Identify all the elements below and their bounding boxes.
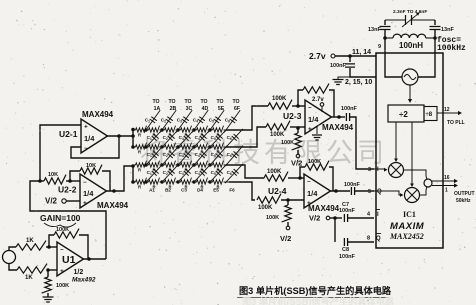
capacitor C8 100nF xyxy=(344,238,347,246)
svg-text:R: R xyxy=(138,184,141,189)
node U2-3 plus xyxy=(296,126,300,130)
op-amp U2-1 1/4 MAX494 xyxy=(81,119,108,153)
resistor R row2 col2 xyxy=(146,146,149,148)
svg-text:÷8: ÷8 xyxy=(426,112,433,118)
svg-text:+: + xyxy=(83,200,87,207)
resistor R row1 col5 xyxy=(194,129,197,131)
svg-text:MAX494: MAX494 xyxy=(97,201,129,210)
capacitor C3 band3 xyxy=(177,164,195,183)
node row4 col3 xyxy=(176,180,179,183)
node row1 col3 xyxy=(176,128,179,131)
resistor 10K feedback U2-2 xyxy=(70,171,80,181)
node U2-4 plus xyxy=(286,198,290,202)
svg-text:100K: 100K xyxy=(272,96,287,102)
resistor 100K row3 input xyxy=(264,172,288,182)
svg-text:TO: TO xyxy=(216,99,223,105)
svg-text:100nF: 100nF xyxy=(341,106,358,112)
resistor R row1 col4 xyxy=(178,129,181,131)
svg-text:B2: B2 xyxy=(165,188,171,193)
node U2-3 minus xyxy=(296,104,300,108)
svg-text:V/2: V/2 xyxy=(309,214,320,223)
svg-text:2.7v: 2.7v xyxy=(312,97,324,103)
node U1 plus xyxy=(46,268,50,272)
capacitor 13nF left xyxy=(384,20,386,25)
resistor 100K to ground xyxy=(47,270,49,277)
capacitor C6 band3 xyxy=(225,164,243,183)
svg-text:1K: 1K xyxy=(26,238,34,244)
divider /2 box xyxy=(388,105,424,122)
node U2-2 minus xyxy=(68,179,72,183)
wire mic top to R 1K xyxy=(9,247,16,251)
svg-text:GAIN=100: GAIN=100 xyxy=(40,213,81,223)
resistor R row4 col5 xyxy=(194,181,197,183)
node row2 col1 xyxy=(144,145,147,148)
wire row2 to U2-3 xyxy=(226,127,266,147)
svg-text:1K: 1K xyxy=(25,275,33,281)
svg-text:1/4: 1/4 xyxy=(83,189,94,198)
svg-text:U2-3: U2-3 xyxy=(283,111,302,121)
wire row4 right stub xyxy=(226,181,241,183)
svg-text:16: 16 xyxy=(444,175,450,181)
node row2 col2 xyxy=(160,145,163,148)
svg-text:100nF: 100nF xyxy=(339,208,356,214)
resistor R row1 col1 xyxy=(133,129,136,131)
wire to pin 3 I xyxy=(350,117,374,169)
node row4 col2 xyxy=(160,180,163,183)
node row1 col4 xyxy=(192,128,195,131)
capacitor C1 band1 xyxy=(145,129,163,148)
svg-text:−: − xyxy=(307,180,311,186)
svg-text:TO: TO xyxy=(200,99,207,105)
node row1 col2 xyxy=(160,128,163,131)
svg-text:U2-1: U2-1 xyxy=(59,129,78,139)
microphone MIC xyxy=(3,251,16,264)
capacitor C2 band1 xyxy=(161,129,179,148)
wire mic bottom to R 1K lower xyxy=(9,264,17,271)
node U1 minus xyxy=(47,245,51,249)
svg-text:1/4: 1/4 xyxy=(308,115,319,124)
capacitor 13nF right xyxy=(434,20,436,25)
op-amp U2-2 1/4 MAX494 xyxy=(80,174,107,208)
svg-text:A1: A1 xyxy=(149,188,155,193)
node row4 col1 xyxy=(144,180,147,183)
svg-text:R: R xyxy=(138,167,141,172)
svg-text:TO PLL: TO PLL xyxy=(447,120,465,126)
resistor R row3 col2 xyxy=(146,164,149,166)
svg-text:D4: D4 xyxy=(197,188,203,193)
svg-text:R: R xyxy=(138,132,141,137)
capacitor C3 to 3C xyxy=(176,110,192,132)
wire R1K to U1 inverting input xyxy=(46,246,57,248)
resistor 1K (lower mic) xyxy=(17,264,47,274)
svg-text:100nH: 100nH xyxy=(399,41,423,50)
svg-text:−: − xyxy=(84,146,88,152)
resistor R row1 col6 xyxy=(210,129,213,131)
caption underline xyxy=(237,297,389,299)
capacitor C3 band1 xyxy=(177,129,195,148)
svg-text:5E: 5E xyxy=(218,106,225,112)
svg-text:U1: U1 xyxy=(62,254,76,266)
wire U1 output up to U2 stage xyxy=(30,181,106,259)
svg-text:2.3nF TO 4.6nF: 2.3nF TO 4.6nF xyxy=(393,9,427,15)
svg-text:2.7v: 2.7v xyxy=(309,51,326,61)
summing node xyxy=(404,170,427,176)
resistor R row4 col4 xyxy=(178,181,181,183)
svg-text:TO: TO xyxy=(184,99,191,105)
resistor 100K row4 input xyxy=(257,194,281,204)
svg-text:100K: 100K xyxy=(267,169,282,175)
wire row4 to U2-4 xyxy=(229,182,255,200)
U2-2 output wire riser to network xyxy=(107,166,134,191)
resistor R row2 col5 xyxy=(194,146,197,148)
resistor R row4 col6 xyxy=(210,181,213,183)
op-amp U2-3 1/4 MAX494 xyxy=(305,100,332,134)
capacitor C6 to 6F xyxy=(224,110,240,132)
capacitor C4 band2 xyxy=(193,146,211,167)
ground stub U2-3 xyxy=(316,126,318,134)
svg-text:−: − xyxy=(83,180,87,186)
svg-text:100K: 100K xyxy=(281,140,294,146)
resistor 100K to V/2 (U2-3 plus) xyxy=(297,128,299,133)
svg-text:C8: C8 xyxy=(342,247,349,253)
node row1 col5 xyxy=(208,128,211,131)
mixer 1 xyxy=(389,163,404,178)
wire row1 to U2-3 xyxy=(226,106,268,130)
svg-text:+: + xyxy=(60,268,64,275)
resistor R row3 col1 xyxy=(133,164,136,166)
svg-text:2, 15, 10: 2, 15, 10 xyxy=(345,79,372,86)
wire row2 right stub xyxy=(226,146,241,148)
node row3 col3 xyxy=(176,163,179,166)
capacitor C4 band1 xyxy=(193,129,211,148)
node row2 col4 xyxy=(192,145,195,148)
U1 output node xyxy=(84,258,107,260)
svg-text:将睿科技有限公司: 将睿科技有限公司 xyxy=(140,138,388,168)
resistor R row2 col3 xyxy=(162,146,165,148)
svg-text:100K: 100K xyxy=(266,215,279,221)
svg-text:100nF: 100nF xyxy=(344,182,361,188)
left bus B rows3-4 xyxy=(132,165,134,182)
resistor 1K (upper mic) xyxy=(16,241,46,251)
capacitor C5 band1 xyxy=(209,129,227,148)
svg-text:TO: TO xyxy=(168,99,175,105)
node row2 col3 xyxy=(176,145,179,148)
svg-text:3: 3 xyxy=(368,167,371,173)
output arrows xyxy=(432,180,455,182)
svg-text:Q: Q xyxy=(376,236,381,242)
node row1 col1 xyxy=(144,128,147,131)
svg-text:+: + xyxy=(308,126,312,133)
capacitor C1 band2 xyxy=(145,146,163,167)
svg-text:MAX494: MAX494 xyxy=(82,110,114,119)
resistor R row2 col1 xyxy=(133,146,136,148)
node row3 col4 xyxy=(192,163,195,166)
resistor R row3 col3 xyxy=(162,164,165,166)
svg-text:100nF: 100nF xyxy=(339,254,356,260)
svg-text:5: 5 xyxy=(368,189,371,195)
wire divider to mixer1 xyxy=(395,122,397,159)
feedback resistor 100K U1 xyxy=(49,235,54,247)
capacitor 100nF decoupling xyxy=(349,56,351,62)
svg-text:1/4: 1/4 xyxy=(307,189,318,198)
svg-text:+: + xyxy=(84,124,88,131)
svg-text:−: − xyxy=(308,106,312,112)
svg-text:100K: 100K xyxy=(270,132,285,138)
resistor R row4 col3 xyxy=(162,181,165,183)
resistor R row2 col6 xyxy=(210,146,213,148)
capacitor C2 to 2B xyxy=(160,110,176,132)
capacitor C6 band1 xyxy=(225,129,243,148)
ground 2.7v rail xyxy=(333,80,344,85)
svg-text:2B: 2B xyxy=(170,106,177,112)
capacitor 100nF (I path) xyxy=(346,113,349,121)
node input split xyxy=(38,179,42,183)
wire V/2 down to C8 xyxy=(334,218,336,242)
U2-4 output xyxy=(331,190,351,192)
U2-1 feedback wire (follower) xyxy=(71,136,119,158)
wire row3 right stub xyxy=(226,164,241,166)
op-amp U1 1/2 MAX492 xyxy=(57,242,84,276)
resistor 100K row2 input xyxy=(266,121,290,131)
resistor R row4 col2 xyxy=(146,181,149,183)
svg-text:TO: TO xyxy=(152,99,159,105)
oscillator symbol xyxy=(385,53,402,77)
svg-text:MAX2452: MAX2452 xyxy=(389,232,424,241)
svg-text:1: 1 xyxy=(445,188,448,194)
svg-text:R: R xyxy=(138,149,141,154)
node row4 col4 xyxy=(192,180,195,183)
node row3 col2 xyxy=(160,163,163,166)
capacitor C1 to 1A xyxy=(144,110,160,132)
wire divider to PLL xyxy=(437,112,459,114)
wire row1 right stub xyxy=(226,129,241,131)
svg-text:1/2: 1/2 xyxy=(74,269,84,276)
capacitor C2 band2 xyxy=(161,146,179,167)
svg-text:图3 单片机(SSB)信号产生的具体电路: 图3 单片机(SSB)信号产生的具体电路 xyxy=(239,285,392,296)
svg-text:1A: 1A xyxy=(154,106,161,112)
svg-text:C3: C3 xyxy=(181,188,187,193)
capacitor C2 band3 xyxy=(161,164,179,183)
svg-text:Q: Q xyxy=(377,189,382,195)
svg-text:10K: 10K xyxy=(48,172,58,178)
svg-text:÷2: ÷2 xyxy=(399,110,408,119)
svg-text:100K: 100K xyxy=(258,205,273,211)
svg-text:6F: 6F xyxy=(234,106,240,112)
capacitor C1 band3 xyxy=(145,164,163,183)
svg-text:IC1: IC1 xyxy=(403,210,416,219)
svg-text:F6: F6 xyxy=(229,188,235,193)
svg-text:MAX494: MAX494 xyxy=(322,123,354,132)
svg-text:13nF: 13nF xyxy=(441,27,454,33)
wire row3 to U2-4 xyxy=(226,165,264,178)
svg-text:8: 8 xyxy=(367,236,370,242)
ground under 100K xyxy=(47,293,49,297)
svg-text:图3 单片机(SSB)信号产生的具体电路: 图3 单片机(SSB)信号产生的具体电路 xyxy=(242,296,395,305)
capacitor C4 to 4D xyxy=(192,110,208,132)
capacitor 100nF (Q path) xyxy=(351,187,354,195)
wire up to U2-1 plus input xyxy=(40,125,81,181)
svg-text:4D: 4D xyxy=(202,106,209,112)
divider /8 box xyxy=(424,107,437,121)
svg-text:V/2: V/2 xyxy=(280,234,291,243)
U2-1 output wire to network xyxy=(108,135,134,137)
capacitor C4 band3 xyxy=(193,164,211,183)
capacitor C3 band2 xyxy=(177,146,195,167)
left bus A rows1-2 xyxy=(132,130,134,148)
capacitor C5 to 5E xyxy=(208,110,224,132)
resistor 10K input U2-2 xyxy=(40,180,44,182)
svg-text:U2-2: U2-2 xyxy=(58,185,77,195)
capacitor C5 band2 xyxy=(209,146,227,167)
arrow osc to divider xyxy=(409,85,411,100)
svg-text:100kHz: 100kHz xyxy=(437,44,466,53)
op-amp U2-4 1/4 MAX494 xyxy=(304,174,331,208)
capacitor C7 100nF xyxy=(344,214,347,222)
node row2 col5 xyxy=(208,145,211,148)
svg-text:13nF: 13nF xyxy=(368,27,381,33)
node U2-4 minus xyxy=(298,176,302,180)
IC1 MAX2452 box xyxy=(376,53,443,248)
inductor 100nH xyxy=(383,36,387,40)
svg-text:V/2: V/2 xyxy=(291,159,302,168)
resistor 100K U2-3 feedback xyxy=(298,90,303,106)
svg-text:9: 9 xyxy=(378,44,381,50)
resistor 100K to V/2 (U2-4 plus) xyxy=(287,200,289,205)
svg-text:−: − xyxy=(60,248,64,254)
svg-text:MAXIM: MAXIM xyxy=(390,221,425,232)
capacitor C5 band3 xyxy=(209,164,227,183)
resistor R row1 col2 xyxy=(146,129,149,131)
scan speckle noise xyxy=(303,6,306,9)
resistor R row2 col4 xyxy=(178,146,181,148)
svg-text:100K: 100K xyxy=(56,283,69,289)
resistor R row3 col6 xyxy=(210,164,213,166)
svg-text:50kHz: 50kHz xyxy=(456,198,471,204)
node row4 col5 xyxy=(208,180,211,183)
mixer 2 xyxy=(405,188,420,203)
svg-text:10K: 10K xyxy=(86,163,96,169)
svg-text:11, 14: 11, 14 xyxy=(352,49,371,56)
node row3 col1 xyxy=(144,163,147,166)
resistor R row3 col4 xyxy=(178,164,181,166)
svg-text:U2-4: U2-4 xyxy=(268,186,287,196)
svg-text:Max492: Max492 xyxy=(72,277,96,284)
svg-text:100K: 100K xyxy=(56,227,69,233)
resistor R row4 col1 xyxy=(133,181,136,183)
resistor R row3 col5 xyxy=(194,164,197,166)
svg-text:V/2: V/2 xyxy=(45,197,58,206)
node row3 col5 xyxy=(208,163,211,166)
svg-text:100nF: 100nF xyxy=(330,63,347,69)
wire divider to mixer2 xyxy=(411,122,413,184)
wire to U1 plus input xyxy=(47,269,57,271)
resistor R row1 col3 xyxy=(162,129,165,131)
svg-text:E5: E5 xyxy=(213,188,219,193)
svg-text:3C: 3C xyxy=(186,106,193,112)
svg-text:MAX494: MAX494 xyxy=(308,204,340,213)
svg-text:100K: 100K xyxy=(308,159,321,165)
svg-text:1/4: 1/4 xyxy=(84,134,95,143)
svg-text:12: 12 xyxy=(444,107,450,113)
resistor 100K row1 input xyxy=(268,100,292,110)
resistor 100K U2-4 feedback xyxy=(300,167,305,178)
U2-3 output xyxy=(332,116,346,118)
svg-text:TO: TO xyxy=(232,99,239,105)
capacitor C6 band2 xyxy=(225,146,243,167)
